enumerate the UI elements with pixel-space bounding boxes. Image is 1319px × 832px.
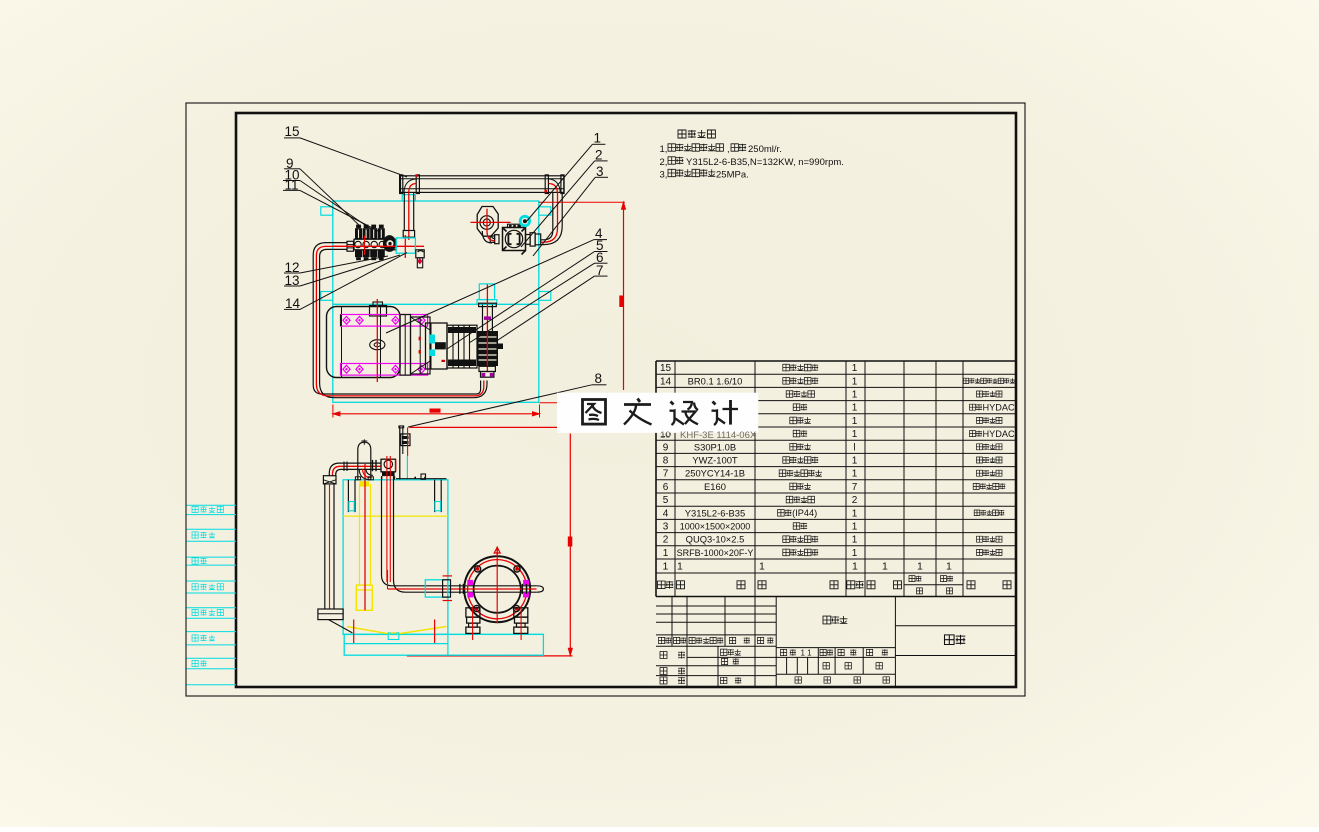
right standpipe and bend: [541, 192, 562, 244]
cyan port ring: [520, 216, 529, 225]
callout 15: [284, 124, 407, 177]
bell housing: [400, 315, 430, 376]
svg-text:SRFB-1000×20F-Y: SRFB-1000×20F-Y: [677, 548, 754, 558]
dimension height lower: [568, 434, 573, 656]
return pipe elbow: [329, 460, 381, 480]
title block grid: [656, 597, 1016, 688]
valve manifold: [332, 225, 424, 261]
internal baffle right: [435, 480, 442, 512]
svg-text:10: 10: [660, 430, 671, 441]
svg-text:HYDAC: HYDAC: [983, 402, 1016, 412]
svg-text:5: 5: [663, 495, 669, 506]
svg-text:1 1: 1 1: [801, 649, 813, 658]
BOM ones row: [663, 561, 953, 573]
svg-text:1: 1: [882, 561, 888, 573]
svg-text:1: 1: [759, 561, 765, 573]
svg-text:25MPa.: 25MPa.: [716, 170, 749, 181]
svg-text:(IP44): (IP44): [792, 508, 817, 518]
callout 11: [283, 178, 380, 233]
motor mount bracket bottom: [341, 364, 428, 376]
red pipe reference top: [409, 426, 557, 428]
callout 14: [284, 253, 407, 312]
outer sheet border: [186, 103, 1025, 696]
watermark panel: [557, 393, 758, 433]
svg-text:1: 1: [852, 535, 858, 546]
svg-text:250YCY14-1B: 250YCY14-1B: [685, 468, 745, 479]
svg-text:1: 1: [852, 403, 858, 414]
standpipe inlet cyan box: [396, 238, 415, 253]
suction pipe to motor: [382, 476, 544, 592]
red baseline bottom: [407, 655, 573, 657]
watermark glyph tu: [583, 400, 606, 425]
watermark glyph wen: [624, 399, 652, 425]
main pipe loop: [313, 243, 487, 398]
svg-text:1: 1: [852, 363, 858, 374]
motor front view: [460, 547, 537, 624]
svg-text:8: 8: [595, 371, 603, 386]
suction strainer yellow: [356, 464, 372, 610]
svg-text:1: 1: [852, 522, 858, 533]
strainer V: [347, 620, 447, 644]
svg-text:1: 1: [663, 548, 669, 559]
callout 1: [526, 131, 605, 223]
svg-text:4: 4: [663, 508, 669, 519]
svg-text:S30P1.0B: S30P1.0B: [694, 441, 736, 452]
callout 4: [386, 226, 607, 333]
motor mount bracket top: [341, 315, 428, 327]
drain valve below manifold: [416, 250, 424, 268]
svg-text:Y315L2-6-B35: Y315L2-6-B35: [685, 507, 745, 518]
svg-text:1: 1: [852, 561, 858, 573]
tank front view: [343, 480, 448, 635]
svg-text:YWZ-100T: YWZ-100T: [692, 455, 738, 466]
callout 7: [495, 263, 608, 342]
svg-text:15: 15: [285, 124, 300, 139]
BOM header row: [658, 576, 1012, 594]
dimension height plan: [539, 202, 626, 402]
svg-text:3,: 3,: [660, 170, 668, 181]
svg-text:1: 1: [852, 390, 858, 401]
svg-text:1: 1: [852, 429, 858, 440]
pipe support beam: [400, 174, 565, 193]
svg-text:QUQ3-10×2.5: QUQ3-10×2.5: [686, 534, 745, 545]
svg-text:BR0.1 1.6/10: BR0.1 1.6/10: [688, 375, 743, 386]
svg-text:2: 2: [852, 495, 858, 506]
svg-text:1: 1: [677, 561, 683, 573]
gear pump body: [482, 224, 540, 254]
svg-text:6: 6: [663, 482, 669, 493]
cooler pump volute: [471, 207, 511, 237]
svg-text:1: 1: [663, 561, 669, 573]
callout 8: [408, 371, 606, 427]
svg-text:1: 1: [917, 561, 923, 573]
internal baffle left: [348, 480, 355, 512]
return filter column: [396, 426, 447, 479]
svg-text:1: 1: [594, 131, 602, 146]
svg-text:1,: 1,: [660, 144, 668, 155]
svg-text:14: 14: [285, 296, 301, 311]
callout 12: [284, 256, 388, 275]
svg-text:2: 2: [663, 535, 669, 546]
svg-text:8: 8: [663, 456, 669, 467]
svg-text:1: 1: [852, 548, 858, 559]
callout 10: [283, 168, 371, 230]
svg-text:E160: E160: [704, 481, 726, 492]
level gauge pipe: [318, 476, 353, 633]
callout 2: [521, 148, 608, 248]
svg-text:7: 7: [852, 482, 858, 493]
svg-text:3: 3: [596, 164, 604, 179]
svg-text:9: 9: [663, 442, 669, 453]
svg-text:1000×1500×2000: 1000×1500×2000: [680, 522, 751, 532]
svg-text:,: ,: [727, 144, 730, 155]
breather arch: [355, 439, 373, 480]
svg-text:15: 15: [660, 363, 672, 374]
svg-text:3: 3: [663, 522, 669, 533]
inner thick border: [236, 113, 1016, 687]
motor plan view: [327, 299, 401, 382]
technical notes text: [660, 130, 844, 181]
svg-text:14: 14: [660, 376, 672, 387]
svg-text:7: 7: [663, 469, 669, 480]
watermark glyph she: [670, 402, 699, 426]
callout 3: [533, 164, 608, 256]
svg-text:1: 1: [852, 456, 858, 467]
svg-text:HYDAC: HYDAC: [983, 429, 1016, 439]
svg-text:Y315L2-6-B35,N=132KW, n=990rpm: Y315L2-6-B35,N=132KW, n=990rpm.: [686, 157, 844, 168]
oil tank plan outline: [321, 195, 551, 403]
svg-text:1: 1: [852, 508, 858, 519]
svg-text:l: l: [853, 442, 855, 453]
svg-text:250ml/r.: 250ml/r.: [748, 144, 782, 155]
watermark glyph ji: [712, 400, 739, 425]
dimension width plan: [333, 405, 540, 418]
BOM table grid: [656, 361, 1016, 597]
motor feet: [466, 607, 528, 640]
lid pump block: [381, 456, 396, 582]
callout 6: [469, 250, 608, 343]
left standpipe: [403, 192, 414, 240]
BOM rows: [660, 363, 858, 374]
binding strip table: [187, 505, 237, 685]
svg-text:1: 1: [852, 469, 858, 480]
svg-text:1: 1: [852, 376, 858, 387]
piston pump plan: [419, 285, 503, 378]
tank wall flange: [425, 576, 452, 601]
svg-text:2,: 2,: [660, 157, 668, 168]
callout 13: [284, 255, 400, 288]
base frame: [344, 634, 543, 655]
callout 9: [284, 156, 361, 227]
svg-text:2: 2: [595, 148, 603, 163]
callout 5: [447, 238, 608, 349]
title block texts: [659, 616, 966, 684]
svg-text:1: 1: [852, 416, 858, 427]
svg-text:1: 1: [946, 561, 952, 573]
svg-text:KHF-3E 1114-06X: KHF-3E 1114-06X: [680, 430, 757, 441]
